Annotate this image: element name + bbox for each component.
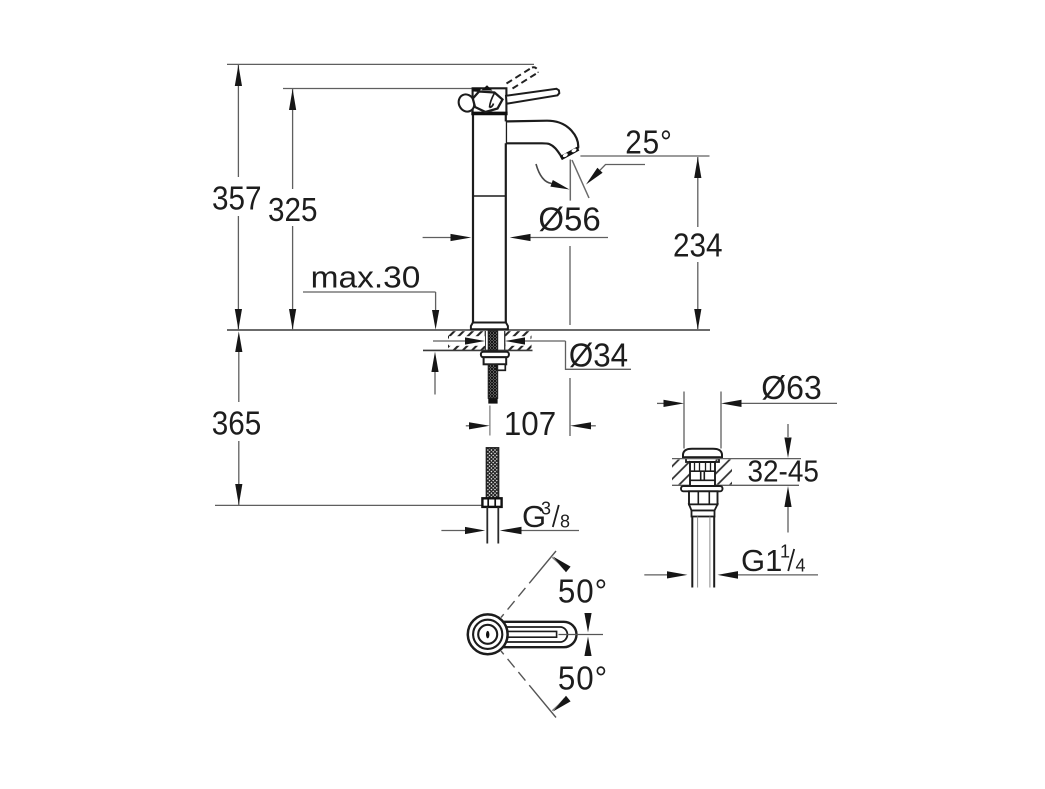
countertop hatched section left bbox=[448, 331, 485, 350]
drain valve cap bbox=[683, 449, 722, 458]
countertop line bbox=[227, 329, 710, 331]
deck hatch right bbox=[716, 460, 733, 485]
body seam bbox=[473, 195, 506, 197]
svg-text:8: 8 bbox=[560, 512, 570, 532]
dimension 32-45 bbox=[787, 424, 789, 437]
svg-text:365: 365 bbox=[212, 405, 262, 442]
cap ring bbox=[686, 457, 719, 462]
D56 extension line bbox=[569, 246, 571, 325]
deck hatch left bbox=[672, 460, 690, 485]
spray angle leader arrow bbox=[586, 168, 603, 185]
lever dashed alternate position bbox=[507, 67, 539, 88]
angle arcs 50deg bbox=[552, 557, 564, 569]
handle centerline bbox=[559, 634, 604, 636]
tailpipe bbox=[691, 517, 693, 588]
spray curved arrow bbox=[536, 164, 552, 184]
lever slot bbox=[505, 631, 557, 637]
valve collar bbox=[692, 511, 715, 517]
faucet spout bbox=[506, 121, 578, 157]
spray angle tilted line 25deg bbox=[572, 160, 589, 198]
drain valve extension lines bbox=[683, 392, 685, 449]
svg-text:50°: 50° bbox=[558, 573, 608, 610]
svg-text:107: 107 bbox=[504, 405, 556, 442]
svg-text:234: 234 bbox=[673, 227, 723, 264]
white strips for D34 arrows bbox=[449, 336, 485, 346]
svg-text:Ø56: Ø56 bbox=[538, 200, 600, 237]
svg-text:357: 357 bbox=[212, 180, 262, 217]
centerline below stud bbox=[489, 406, 491, 436]
deck top line bbox=[672, 458, 801, 460]
supply hose braided bbox=[486, 448, 498, 499]
handle hub circles bbox=[468, 614, 508, 654]
svg-text:max.30: max.30 bbox=[311, 260, 421, 295]
valve locknut bbox=[689, 491, 718, 504]
handle top view rays dashed 50deg bbox=[501, 551, 556, 618]
arc arrowheads bbox=[553, 557, 571, 573]
mounting nut bbox=[484, 357, 507, 364]
lever rod bbox=[506, 89, 559, 104]
dimension 365 line bbox=[238, 352, 240, 505]
dimension D34 leader bbox=[433, 340, 466, 342]
counter underside line bbox=[423, 349, 533, 351]
threaded stud below nut bbox=[488, 365, 497, 399]
svg-text:Ø63: Ø63 bbox=[761, 369, 821, 406]
svg-text:325: 325 bbox=[268, 192, 318, 229]
aerator bbox=[561, 149, 579, 159]
threaded stud through counter bbox=[488, 331, 497, 350]
svg-text:Ø34: Ø34 bbox=[569, 337, 628, 374]
handle top view lever capsule bbox=[501, 622, 577, 647]
svg-text:25°: 25° bbox=[625, 124, 673, 161]
faucet body bbox=[473, 114, 506, 323]
dimension 234 line bbox=[697, 157, 699, 329]
handle wedge bbox=[482, 85, 493, 90]
dimension max.30 bbox=[303, 291, 436, 293]
dimension G1 1/4 bbox=[644, 574, 668, 576]
reference line bottom (365) bbox=[215, 504, 484, 506]
hole edges bbox=[484, 331, 486, 350]
dimension D63 bbox=[657, 402, 666, 404]
svg-text:32-45: 32-45 bbox=[748, 454, 819, 489]
supply tube bbox=[486, 507, 488, 544]
reference line (325) bbox=[283, 88, 473, 90]
svg-text:3: 3 bbox=[541, 499, 551, 519]
dimension G3/8 bbox=[441, 530, 466, 532]
dimension 25deg underline bbox=[580, 155, 709, 157]
svg-text:50°: 50° bbox=[558, 660, 608, 697]
svg-text:4: 4 bbox=[796, 556, 806, 576]
lever inner contour bbox=[503, 627, 567, 642]
spray angle vertical line bbox=[569, 160, 571, 201]
svg-text:1: 1 bbox=[780, 542, 790, 562]
hose hex fitting bbox=[482, 498, 501, 507]
svg-text:G1: G1 bbox=[741, 543, 782, 578]
countertop hatched section right bbox=[505, 331, 532, 350]
dimension 325 line bbox=[292, 89, 294, 331]
faucet head bbox=[473, 88, 507, 113]
handle knob bbox=[473, 92, 503, 113]
dimension D56 arrows bbox=[423, 237, 452, 239]
valve taper bbox=[689, 504, 718, 510]
dimension 357 line bbox=[237, 64, 239, 330]
reference line top (357) bbox=[227, 63, 534, 65]
valve washer bbox=[681, 486, 723, 491]
valve thread ticks bbox=[694, 463, 696, 471]
mounting washer bbox=[481, 352, 509, 357]
valve windows bbox=[700, 471, 702, 480]
faucet base bbox=[471, 323, 508, 330]
deck bottom line bbox=[672, 484, 799, 486]
nut side step bbox=[497, 364, 506, 370]
dimension 107 bbox=[466, 425, 471, 427]
handle knob protrusion bbox=[456, 92, 477, 114]
valve neck bbox=[690, 462, 715, 486]
hub slot bbox=[486, 631, 489, 638]
